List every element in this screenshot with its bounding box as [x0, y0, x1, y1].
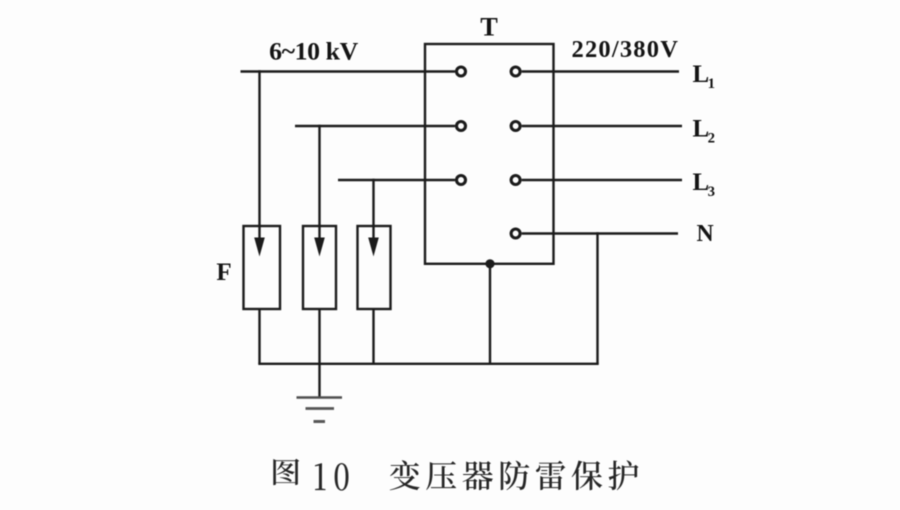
wire: secondary L1 to label: [522, 70, 679, 72]
svg-text:L1: L1: [693, 61, 715, 92]
wire: primary feeder phase B horizontal: [295, 125, 455, 127]
terminal circle: secondary L3: [511, 176, 520, 185]
arrester F3 body: [358, 226, 391, 309]
svg-text:F: F: [216, 259, 231, 286]
wire: N conductor drop to earthing bus: [596, 232, 598, 363]
terminal circle: primary phase C: [457, 176, 466, 185]
wire: neutral point down to earthing bus: [489, 264, 491, 364]
wire: arrester F1 bottom lead: [258, 309, 260, 364]
terminal circle: secondary N: [511, 229, 520, 238]
arrester F1 body: [244, 226, 281, 309]
svg-text:T: T: [480, 13, 498, 42]
ground electrode stem: [318, 364, 320, 398]
svg-text:N: N: [697, 221, 714, 247]
wire: earthing bus horizontal: [258, 363, 598, 365]
wire: arrester F2 bottom lead: [318, 309, 320, 364]
svg-text:L2: L2: [693, 115, 715, 146]
junction dot on transformer bottom (neutral point): [485, 259, 494, 268]
transformer T box outline: [425, 44, 554, 264]
terminal circle: secondary L2: [511, 122, 520, 131]
wire: secondary L2 to label: [522, 125, 682, 127]
wire: drop from phase C to arrester F3: [372, 179, 374, 243]
caption digit 1: [315, 463, 326, 490]
wire: secondary N to label: [522, 232, 678, 234]
ground symbol bar 1: [297, 396, 343, 399]
arrester F3 arrowhead: [368, 238, 379, 257]
svg-text:6~10 kV: 6~10 kV: [269, 36, 359, 65]
terminal circle: secondary L1: [511, 67, 520, 76]
wire: drop from phase B to arrester F2: [318, 125, 320, 243]
arrester F1 arrowhead: [254, 238, 265, 257]
terminal circle: primary phase B: [457, 122, 466, 131]
wire: primary feeder phase C horizontal: [338, 179, 455, 181]
caption digit 0: [335, 463, 349, 491]
wire: arrester F3 bottom lead: [372, 309, 374, 364]
svg-text:L3: L3: [693, 169, 715, 200]
arrester F2 body: [303, 226, 336, 309]
arrester F2 arrowhead: [314, 238, 325, 257]
wire: secondary L3 to label: [522, 179, 682, 181]
wire: drop from phase A to arrester F1: [258, 70, 260, 243]
ground symbol bar 3: [314, 420, 326, 423]
ground symbol bar 2: [306, 407, 335, 410]
svg-text:220/380V: 220/380V: [572, 36, 680, 63]
terminal circle: primary phase A: [457, 67, 466, 76]
caption: 图: [273, 459, 299, 485]
wire: 6~10 kV primary feeder phase A horizontal: [241, 70, 455, 72]
caption: 变压器防雷保护: [390, 460, 639, 490]
